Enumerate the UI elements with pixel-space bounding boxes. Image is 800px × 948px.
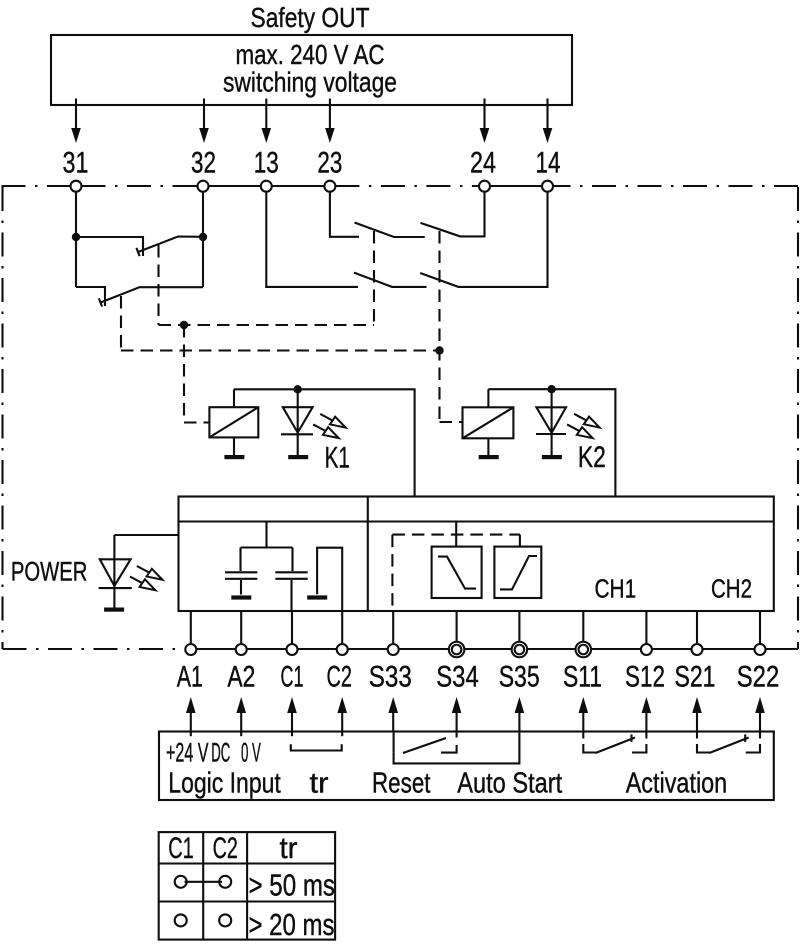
svg-text:S34: S34	[436, 661, 479, 694]
svg-text:0 V: 0 V	[241, 737, 261, 767]
svg-text:S21: S21	[675, 661, 716, 694]
svg-text:Logic Input: Logic Input	[168, 767, 281, 799]
svg-text:A1: A1	[177, 661, 203, 694]
svg-text:S11: S11	[563, 661, 602, 694]
svg-text:CH2: CH2	[711, 574, 752, 604]
svg-text:K2: K2	[578, 441, 606, 474]
svg-text:C2: C2	[213, 832, 238, 865]
svg-text:C1: C1	[281, 661, 304, 694]
svg-text:S35: S35	[499, 661, 540, 694]
svg-text:> 50 ms: > 50 ms	[249, 869, 336, 903]
svg-text:POWER: POWER	[11, 557, 88, 587]
svg-text:C2: C2	[326, 661, 352, 694]
svg-text:14: 14	[536, 147, 561, 180]
svg-text:13: 13	[254, 147, 279, 180]
svg-text:+24 V: +24 V	[166, 737, 209, 767]
svg-text:Safety OUT: Safety OUT	[251, 2, 370, 33]
svg-text:C1: C1	[168, 832, 194, 865]
svg-text:31: 31	[63, 147, 89, 180]
svg-text:tr: tr	[310, 767, 329, 799]
svg-text:S22: S22	[737, 661, 780, 694]
svg-text:32: 32	[191, 147, 216, 180]
svg-text:Activation: Activation	[626, 767, 728, 799]
svg-text:switching voltage: switching voltage	[223, 67, 397, 98]
svg-text:Reset: Reset	[372, 767, 431, 799]
svg-text:CH1: CH1	[595, 574, 637, 604]
svg-text:K1: K1	[325, 442, 350, 475]
svg-text:DC: DC	[211, 737, 230, 767]
svg-text:Auto Start: Auto Start	[457, 767, 562, 799]
svg-text:24: 24	[470, 147, 496, 180]
svg-text:S12: S12	[625, 661, 665, 694]
svg-text:> 20 ms: > 20 ms	[249, 908, 335, 942]
svg-text:tr: tr	[280, 832, 298, 865]
svg-text:max. 240 V AC: max. 240 V AC	[236, 39, 385, 70]
svg-text:A2: A2	[227, 661, 255, 694]
svg-text:S33: S33	[369, 661, 412, 694]
svg-text:23: 23	[317, 147, 342, 180]
